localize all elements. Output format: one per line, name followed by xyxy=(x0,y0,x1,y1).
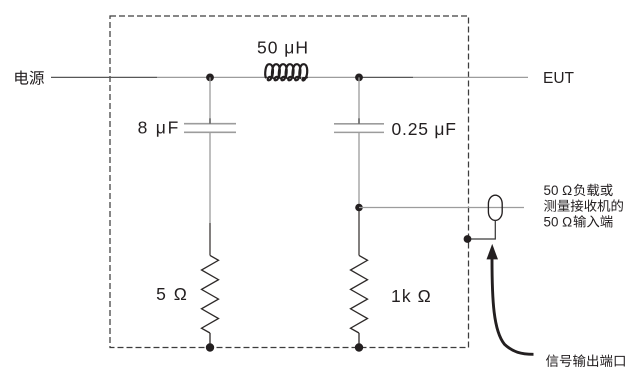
wire: C1 down to R1 xyxy=(209,132,211,223)
wire: mains line to node A and node B xyxy=(157,76,359,78)
wire: mains lead from 电源 xyxy=(51,76,157,78)
label line2 测量接收机的 xyxy=(544,199,623,211)
node B (right junction on mains line) xyxy=(355,74,363,82)
svg-text:8 μF: 8 μF xyxy=(138,118,181,138)
svg-text:5 Ω: 5 Ω xyxy=(156,284,188,304)
wire: lead into R1 xyxy=(209,223,211,255)
node A (left junction on mains line) xyxy=(206,74,214,82)
svg-text:50 Ω: 50 Ω xyxy=(544,214,573,229)
svg-text:50 μH: 50 μH xyxy=(257,38,309,58)
label 电源 (mains) xyxy=(15,71,44,85)
svg-text:0.25 μF: 0.25 μF xyxy=(392,119,457,139)
wire: node A down to C1 xyxy=(209,77,211,123)
node: signal output port on enclosure xyxy=(464,235,472,243)
resistor R1 5ohm zigzag xyxy=(202,255,219,333)
wire: node C to 50 ohm load xyxy=(359,207,524,209)
wire: lead out to EUT xyxy=(413,76,528,78)
wire: C2 down to R2 xyxy=(358,132,360,207)
resistor R2 1k zigzag xyxy=(351,255,368,333)
node C (signal output junction) xyxy=(355,204,363,212)
wire: C2 top lead stub xyxy=(358,118,360,124)
node: bottom left junction xyxy=(206,343,214,351)
label 信号输出端口 xyxy=(546,354,625,367)
arrow curved stem xyxy=(492,259,534,355)
node: bottom right junction xyxy=(355,343,363,351)
capacitor C2 0.25uF plates xyxy=(334,123,384,125)
wire: node B down to C2 xyxy=(358,77,360,123)
svg-text:EUT: EUT xyxy=(543,70,575,87)
capacitor C1 8uF plates xyxy=(184,123,236,125)
wire: C1 top lead stub xyxy=(209,118,211,123)
wire: node B to inside right edge xyxy=(359,76,413,78)
LISN enclosure dashed box xyxy=(110,16,469,348)
svg-text:50 Ω: 50 Ω xyxy=(544,183,573,198)
wire: node C to R2 xyxy=(358,208,360,256)
inductor L 50uH coil xyxy=(265,64,307,80)
arrow head (points to signal output) xyxy=(487,244,499,260)
wire: R2 to bottom rail xyxy=(358,333,360,348)
connector: coax jack oval xyxy=(488,195,502,220)
wire: jack stub down and left xyxy=(470,220,495,239)
wire: R1 to bottom rail xyxy=(209,333,211,348)
svg-text:1k Ω: 1k Ω xyxy=(391,286,432,306)
